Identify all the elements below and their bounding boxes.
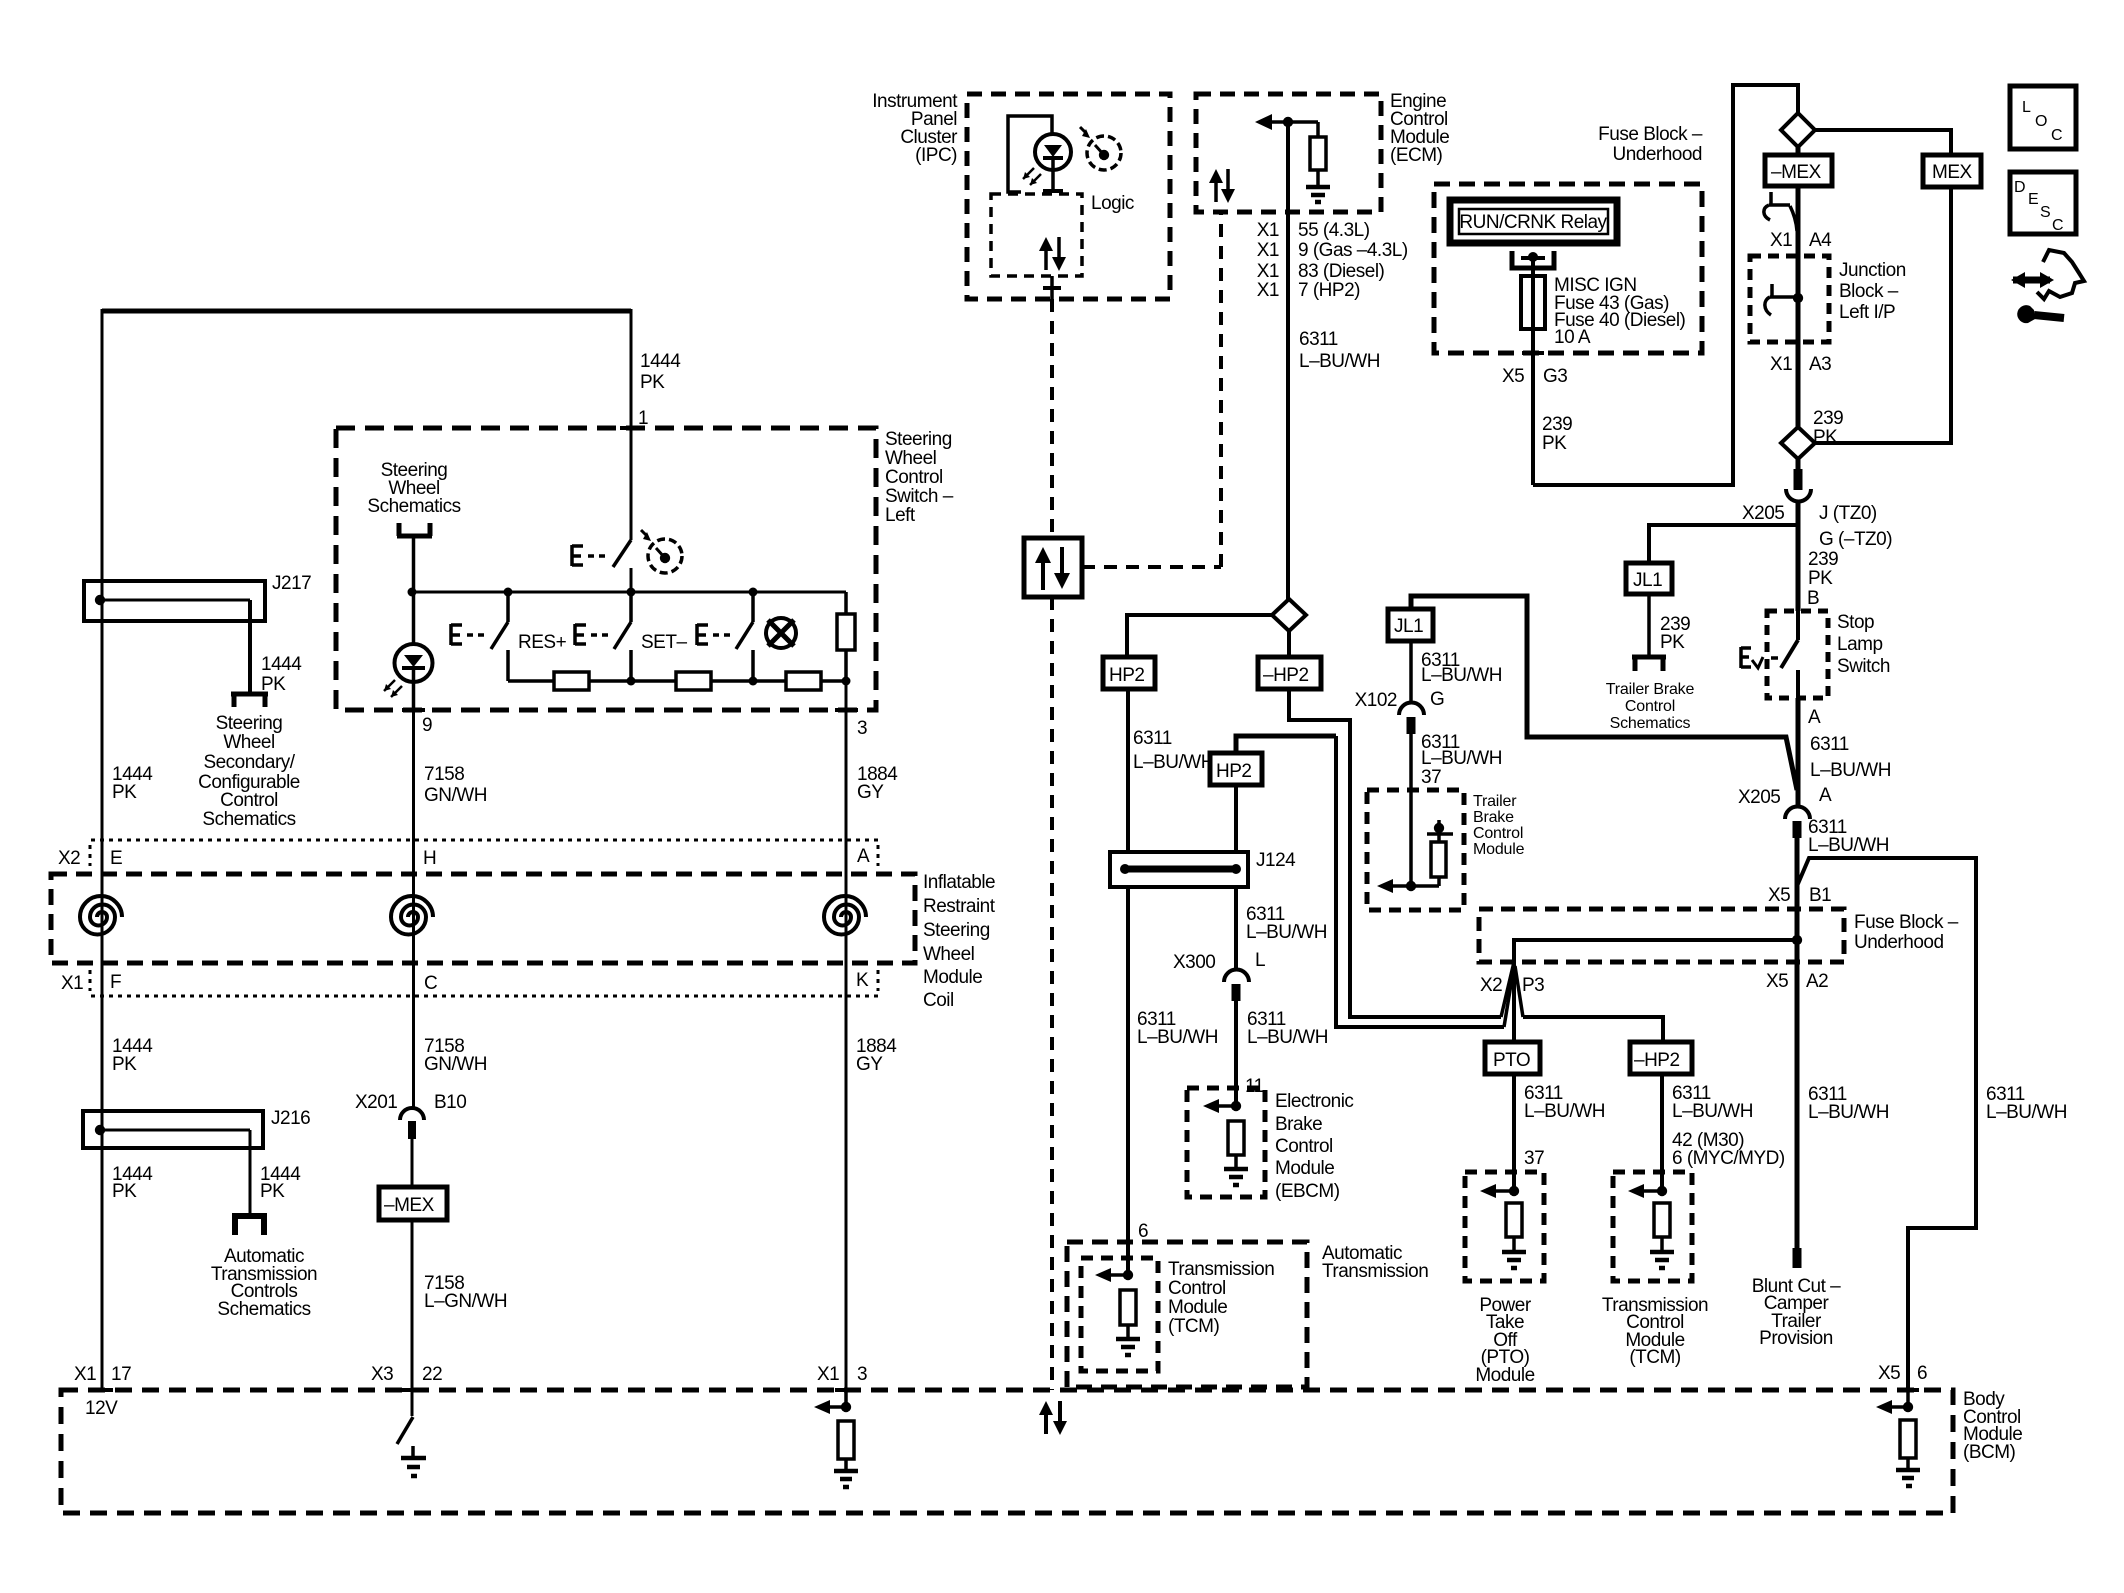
connector MEX	[1923, 155, 1981, 187]
wire schematics to bus	[412, 536, 416, 592]
svg-text:A2: A2	[1806, 971, 1828, 992]
svg-text:PK: PK	[260, 1181, 285, 1202]
svg-text:X5: X5	[1502, 366, 1524, 387]
svg-text:X1: X1	[817, 1364, 839, 1385]
connector X201 B10	[400, 1108, 424, 1187]
svg-text:PK: PK	[112, 1054, 137, 1075]
svg-text:X1: X1	[1257, 220, 1279, 241]
label 239 PK junction	[1813, 408, 1843, 448]
tick X3 22	[402, 1388, 424, 1392]
EBCM module box	[1187, 1088, 1265, 1197]
label 1444 PK (top)	[640, 351, 681, 393]
svg-text:J216: J216	[271, 1108, 310, 1129]
wire JL1 to X102	[1409, 641, 1413, 703]
svg-text:Wheel: Wheel	[923, 944, 974, 965]
svg-text:Control: Control	[1473, 825, 1523, 842]
wire mid through coil	[412, 840, 415, 1108]
svg-text:X1: X1	[1257, 280, 1279, 301]
svg-text:Schematics: Schematics	[202, 809, 295, 830]
labels X5 6	[1878, 1363, 1927, 1384]
BCM arrow resistor ground X5 6	[1876, 1390, 1920, 1486]
label 1884 GY upper	[857, 764, 898, 803]
wire HP2 second to J124	[1234, 785, 1238, 852]
svg-text:Steering: Steering	[923, 920, 990, 941]
svg-text:HP2: HP2	[1216, 761, 1251, 782]
svg-text:MEX: MEX	[1932, 162, 1973, 183]
svg-text:C: C	[2051, 127, 2063, 144]
svg-text:Module: Module	[1475, 1365, 1534, 1386]
junction terminal hook upper	[1764, 192, 1797, 231]
trailer brake module internals	[1377, 790, 1453, 893]
ECM pin labels X1 rows	[1257, 220, 1279, 301]
svg-text:Control: Control	[1275, 1136, 1333, 1157]
dashed serial link IPC down	[1050, 299, 1054, 538]
wire diamond to -MEX	[1796, 147, 1801, 155]
svg-text:L–BU/WH: L–BU/WH	[1421, 665, 1502, 686]
svg-text:E: E	[2028, 191, 2039, 208]
svg-text:Transmission: Transmission	[1322, 1261, 1428, 1282]
svg-text:Schematics: Schematics	[1610, 715, 1691, 732]
BCM bottom labels X1 3	[817, 1364, 867, 1385]
text steering wheel control switch left	[885, 429, 954, 526]
wire -HP2 from diamond	[1287, 631, 1291, 657]
diamond junction ECM HP2	[1272, 599, 1306, 631]
label 1444 PK below J216 left	[112, 1164, 153, 1202]
wire 1444 PK top feed	[102, 309, 631, 314]
label J216	[271, 1108, 310, 1129]
svg-text:B: B	[1807, 588, 1819, 609]
svg-text:L–BU/WH: L–BU/WH	[1421, 748, 1502, 769]
label 1444 PK below J216 right	[260, 1164, 301, 1202]
labels X205 A	[1738, 785, 1832, 808]
svg-text:L–BU/WH: L–BU/WH	[1672, 1101, 1753, 1122]
serial data box updown	[1024, 538, 1082, 597]
off-page bracket steering wheel secondary	[231, 694, 268, 707]
svg-text:Control: Control	[1625, 698, 1675, 715]
svg-text:PK: PK	[1808, 568, 1833, 589]
label 6311 L-BU/WH 37 PTO	[1524, 1083, 1605, 1169]
wire ECM output	[1286, 122, 1290, 599]
label 239 PK fuse	[1542, 414, 1572, 454]
label 6311 L-BU/WH 37	[1421, 732, 1502, 788]
connector PTO	[1485, 1042, 1540, 1074]
tick X1 3	[835, 1388, 857, 1392]
switch SET-	[575, 592, 631, 681]
svg-text:Logic: Logic	[1091, 193, 1134, 214]
svg-text:G: G	[1430, 689, 1444, 710]
svg-text:(TCM): (TCM)	[1168, 1316, 1219, 1337]
svg-text:Transmission: Transmission	[1168, 1259, 1274, 1280]
label 6311 L-BU/WH left low	[1137, 1009, 1218, 1048]
tick X5 G3	[1522, 351, 1544, 355]
svg-text:B1: B1	[1809, 885, 1831, 906]
stop lamp switch box	[1767, 611, 1828, 698]
wire J124 to X300	[1234, 887, 1238, 970]
label SET-	[641, 632, 687, 653]
svg-text:3: 3	[857, 1364, 867, 1385]
svg-text:Wheel: Wheel	[223, 732, 274, 753]
svg-text:Control: Control	[220, 790, 278, 811]
wire diamond to MEX	[1815, 130, 1951, 155]
svg-text:Fuse Block –: Fuse Block –	[1854, 912, 1959, 933]
label 6311 L-BU/WH below X205	[1808, 817, 1889, 856]
svg-text:Switch: Switch	[1837, 656, 1890, 677]
connector JL1 second	[1388, 609, 1433, 641]
wire -HP2 route to funnel	[1289, 689, 1501, 1017]
connector X205 J terminal	[1786, 459, 1811, 502]
wire 7158 L-GN/WH	[411, 1220, 414, 1416]
labels X2 P3	[1480, 975, 1544, 996]
svg-text:RES+: RES+	[518, 632, 567, 653]
TCM 2 internals	[1628, 1184, 1674, 1268]
svg-text:Trailer: Trailer	[1473, 793, 1517, 810]
label J124	[1256, 850, 1296, 871]
label 7158 GN/WH upper	[424, 764, 487, 806]
labels X1 A4	[1770, 230, 1832, 251]
svg-text:X5: X5	[1766, 971, 1788, 992]
splice J216	[83, 1111, 263, 1217]
labels X1 A3	[1770, 354, 1831, 375]
wire 1444 PK drop to switch pin 1	[630, 309, 633, 540]
svg-text:239: 239	[1813, 408, 1843, 429]
switch RES+	[451, 592, 508, 681]
svg-text:L: L	[1255, 950, 1265, 971]
svg-text:K: K	[856, 970, 869, 991]
resistor row R2	[676, 672, 711, 690]
svg-text:239: 239	[1808, 549, 1838, 570]
svg-text:D: D	[2014, 179, 2026, 196]
svg-text:JL1: JL1	[1394, 616, 1423, 637]
label pin 9	[422, 715, 432, 736]
svg-text:A: A	[1808, 707, 1821, 728]
label B	[1807, 588, 1819, 609]
label 239 PK JL1	[1660, 614, 1690, 653]
label 1444 PK mid	[112, 1036, 153, 1075]
svg-text:Restraint: Restraint	[923, 896, 996, 917]
svg-text:37: 37	[1421, 767, 1441, 788]
cruise gauge icon	[641, 530, 682, 573]
BCM module box	[61, 1390, 1953, 1513]
TCM internals arrow resistor ground	[1095, 1268, 1140, 1355]
wire corner to funnel lower	[1336, 736, 1504, 1027]
text blunt cut camper trailer provision	[1752, 1276, 1841, 1349]
tick pin3	[835, 708, 858, 712]
svg-text:Electronic: Electronic	[1275, 1091, 1353, 1112]
wire junction block through	[1796, 256, 1801, 428]
DESC reference box	[2010, 172, 2076, 234]
svg-text:X2: X2	[1480, 975, 1502, 996]
svg-text:PTO: PTO	[1493, 1050, 1530, 1071]
connector HP2 first	[1103, 657, 1155, 689]
svg-text:(BCM): (BCM)	[1963, 1442, 2016, 1463]
wire PTO down	[1512, 1074, 1516, 1191]
svg-text:6311: 6311	[1299, 329, 1338, 350]
text instrument panel cluster	[872, 91, 958, 166]
svg-text:Wheel: Wheel	[885, 448, 936, 469]
svg-text:J (TZ0): J (TZ0)	[1819, 503, 1877, 524]
connector funnel X2 P3	[1501, 962, 1523, 1042]
label 6311 L-BU/WH stop lamp	[1810, 734, 1891, 781]
label 6 TCM pin	[1138, 1221, 1148, 1242]
IPC LED indicator	[1023, 134, 1071, 191]
svg-text:–MEX: –MEX	[1771, 162, 1822, 183]
label 1444 PK below J217	[261, 654, 302, 695]
svg-text:G (–TZ0): G (–TZ0)	[1819, 529, 1892, 550]
svg-text:6: 6	[1138, 1221, 1148, 1242]
text engine control module	[1390, 91, 1449, 166]
label 1884 GY mid	[856, 1036, 897, 1075]
label 6311 L-BU/WH right low	[1247, 1009, 1328, 1048]
label 6311 L-BU/WH above X300	[1246, 904, 1327, 943]
coil connector row X2 dotted	[90, 840, 878, 866]
wire 1444 PK left vertical	[101, 309, 104, 1390]
svg-text:J124: J124	[1256, 850, 1296, 871]
tick X5 6	[1897, 1388, 1919, 1392]
cruise on-off switch E blade	[572, 540, 631, 592]
trailer brake control module box	[1367, 790, 1464, 910]
diamond junction top	[1781, 113, 1815, 147]
IPC driver loop	[1008, 116, 1052, 192]
svg-text:X5: X5	[1768, 885, 1790, 906]
BCM updown arrows	[1039, 1401, 1067, 1435]
bracket automatic transmission pointer	[232, 1216, 267, 1235]
logic updown arrows	[1039, 237, 1066, 271]
svg-text:GN/WH: GN/WH	[424, 1054, 487, 1075]
svg-text:Module: Module	[1473, 841, 1525, 858]
svg-text:Left I/P: Left I/P	[1839, 302, 1895, 323]
svg-text:L–BU/WH: L–BU/WH	[1808, 835, 1889, 856]
fuse block 2 internal wire	[1514, 935, 1802, 962]
svg-text:PK: PK	[112, 782, 137, 803]
bus wire in switch box	[412, 591, 846, 594]
svg-text:A: A	[857, 846, 870, 867]
svg-text:PK: PK	[112, 1181, 137, 1202]
svg-text:L–BU/WH: L–BU/WH	[1808, 1102, 1889, 1123]
svg-text:Provision: Provision	[1759, 1328, 1833, 1349]
svg-text:X1: X1	[1257, 261, 1279, 282]
resistor right in switch box	[837, 592, 855, 681]
HP2 diamond branch	[1127, 615, 1272, 657]
svg-text:S: S	[2040, 204, 2051, 221]
svg-text:PK: PK	[1660, 632, 1685, 653]
connector X300 L	[1224, 970, 1249, 1107]
label 6311 L-BU/WH ECM	[1299, 329, 1380, 372]
connector -MEX	[1765, 155, 1832, 186]
label RES+	[518, 632, 567, 653]
IPC logic box	[991, 194, 1082, 276]
svg-text:SET–: SET–	[641, 632, 687, 653]
svg-text:A: A	[1819, 785, 1832, 806]
text TCM	[1168, 1259, 1274, 1337]
connector -HP2 second	[1630, 1042, 1692, 1074]
fuse MISC IGN	[1521, 257, 1545, 485]
svg-text:HP2: HP2	[1109, 665, 1144, 686]
svg-text:L–BU/WH: L–BU/WH	[1246, 922, 1327, 943]
svg-text:X1: X1	[61, 973, 83, 994]
TCM module box	[1081, 1258, 1158, 1371]
wire HP2 to J124	[1126, 689, 1130, 852]
label 6311 L-BU/WH far right	[1986, 1084, 2067, 1123]
svg-text:6311: 6311	[1133, 728, 1172, 749]
coil spiral left	[80, 896, 122, 935]
svg-text:22: 22	[422, 1364, 442, 1385]
label pin 3	[857, 718, 867, 739]
coil connector row X1 dotted	[90, 970, 878, 996]
svg-text:(EBCM): (EBCM)	[1275, 1181, 1340, 1202]
svg-text:Lamp: Lamp	[1837, 634, 1883, 655]
svg-text:1444: 1444	[261, 654, 302, 675]
ECM module box	[1196, 94, 1381, 212]
label 12V	[85, 1398, 118, 1419]
bracket steering wheel schematics pointer	[397, 523, 432, 536]
switch to ground in BCM	[397, 1417, 426, 1476]
svg-text:L: L	[2022, 99, 2031, 116]
svg-text:Schematics: Schematics	[217, 1299, 310, 1320]
text EBCM	[1275, 1091, 1353, 1202]
text steering wheel schematics	[367, 460, 460, 517]
svg-text:C: C	[424, 973, 437, 994]
svg-text:Stop: Stop	[1837, 612, 1874, 633]
wire JL1 down	[1647, 594, 1651, 655]
svg-text:Schematics: Schematics	[367, 496, 460, 517]
label 6311 L-BU/WH blunt	[1808, 1084, 1889, 1123]
svg-text:L–BU/WH: L–BU/WH	[1524, 1101, 1605, 1122]
svg-text:GY: GY	[856, 1054, 883, 1075]
resistor row R3	[786, 672, 821, 690]
svg-text:(ECM): (ECM)	[1390, 145, 1443, 166]
svg-text:O: O	[2035, 113, 2047, 130]
svg-text:X102: X102	[1355, 690, 1397, 711]
svg-text:6 (MYC/MYD): 6 (MYC/MYD)	[1672, 1148, 1785, 1169]
connector -MEX left	[379, 1187, 447, 1220]
label 7158 L-GN/WH	[424, 1273, 507, 1312]
svg-text:GY: GY	[857, 782, 884, 803]
svg-text:Switch –: Switch –	[885, 486, 954, 507]
label X102	[1355, 690, 1397, 711]
wire HP2 second top	[1236, 736, 1336, 753]
text automatic transmission controls schematics	[211, 1246, 317, 1320]
wire funnel to -HP2 second	[1523, 1017, 1663, 1042]
text trailer brake control schematics	[1606, 681, 1695, 732]
text junction block left IP	[1839, 260, 1906, 323]
svg-text:X5: X5	[1878, 1363, 1900, 1384]
wire JL1 second to stop lamp line	[1411, 596, 1797, 790]
LOC reference box	[2010, 86, 2076, 149]
coil spiral right	[824, 896, 866, 935]
resistor row line	[508, 679, 846, 683]
relay RUN/CRNK	[1450, 200, 1617, 243]
svg-text:E: E	[110, 848, 122, 869]
svg-text:Control: Control	[885, 467, 943, 488]
bracket trailer brake pointer	[1632, 657, 1666, 671]
steering wheel control switch box	[336, 428, 876, 710]
svg-text:9 (Gas –4.3L): 9 (Gas –4.3L)	[1298, 240, 1408, 261]
svg-text:Steering: Steering	[216, 713, 283, 734]
label 239 PK stop lamp	[1808, 549, 1838, 589]
branch to JL1	[1649, 525, 1798, 563]
svg-text:Steering: Steering	[885, 429, 952, 450]
svg-text:10 A: 10 A	[1554, 327, 1591, 348]
splice J217	[84, 581, 265, 693]
wire MEX down to diamond	[1815, 187, 1951, 443]
labels X1 F C K	[61, 970, 869, 994]
svg-text:Underhood: Underhood	[1854, 932, 1944, 953]
resistor row R1	[554, 672, 589, 690]
svg-text:Secondary/: Secondary/	[203, 752, 295, 773]
text transmission control module 2	[1602, 1295, 1708, 1368]
labels X300 L	[1173, 950, 1265, 973]
tick pin9	[402, 708, 425, 712]
svg-text:Module: Module	[1275, 1158, 1334, 1179]
BCM arrow resistor ground X1 3	[814, 1390, 858, 1487]
text MISC IGN fuse	[1554, 275, 1686, 348]
svg-text:Block –: Block –	[1839, 281, 1899, 302]
label 6311 L-BU/WH G	[1421, 650, 1502, 710]
svg-text:7158: 7158	[424, 764, 464, 785]
svg-text:L–BU/WH: L–BU/WH	[1137, 1027, 1218, 1048]
labels X2 E H A	[58, 846, 870, 869]
svg-text:RUN/CRNK Relay: RUN/CRNK Relay	[1459, 212, 1607, 233]
svg-text:G3: G3	[1543, 366, 1567, 387]
svg-text:X3: X3	[371, 1364, 393, 1385]
svg-text:C: C	[2052, 217, 2064, 234]
labels X5 B1	[1768, 885, 1831, 906]
text body control module BCM	[1963, 1389, 2022, 1463]
fuse block underhood box 1	[1434, 184, 1702, 353]
connector HP2 second	[1210, 753, 1262, 785]
svg-text:17: 17	[111, 1364, 131, 1385]
label 6311 42 M30 TCM2	[1672, 1083, 1785, 1169]
svg-text:X1: X1	[1770, 354, 1792, 375]
text stop lamp switch	[1837, 612, 1890, 677]
PTO module box	[1465, 1172, 1544, 1281]
wire pin9 out	[412, 682, 415, 840]
svg-text:PK: PK	[1542, 433, 1567, 454]
EBCM internals arrow resistor ground	[1203, 1099, 1248, 1185]
svg-text:Trailer Brake: Trailer Brake	[1606, 681, 1695, 698]
pin 1 label	[638, 408, 648, 429]
svg-text:Junction: Junction	[1839, 260, 1906, 281]
navigation arrow wrench icon	[2011, 250, 2084, 323]
svg-text:L–BU/WH: L–BU/WH	[1247, 1027, 1328, 1048]
ECM arrow and internal resistor to ground	[1255, 114, 1330, 202]
coil module dashed box	[51, 874, 915, 963]
svg-text:X201: X201	[355, 1092, 397, 1113]
TCM 2 module box	[1613, 1172, 1692, 1281]
connector X102	[1399, 702, 1424, 790]
tick X1 17	[91, 1388, 113, 1392]
svg-text:L–GN/WH: L–GN/WH	[424, 1291, 507, 1312]
svg-text:X1: X1	[1770, 230, 1792, 251]
junction block left IP box	[1750, 256, 1829, 342]
stop lamp switch blade	[1741, 611, 1798, 698]
junction dots on bus	[408, 588, 758, 597]
svg-text:Brake: Brake	[1275, 1114, 1322, 1135]
svg-text:12V: 12V	[85, 1398, 118, 1419]
labels X205 J G	[1742, 503, 1892, 550]
labels X201 B10	[355, 1092, 466, 1113]
wire left through coil	[101, 840, 104, 1390]
svg-text:F: F	[110, 972, 121, 993]
svg-text:X205: X205	[1742, 503, 1784, 524]
svg-text:A4: A4	[1809, 230, 1832, 251]
svg-text:L–BU/WH: L–BU/WH	[1810, 760, 1891, 781]
label 7158 GN/WH mid	[424, 1036, 487, 1075]
label 6311 L-BU/WH under HP2	[1133, 728, 1214, 773]
svg-text:Module: Module	[923, 967, 982, 988]
BCM bottom labels X3 22	[371, 1364, 442, 1385]
wire 239 PK to stop lamp	[1796, 502, 1801, 611]
